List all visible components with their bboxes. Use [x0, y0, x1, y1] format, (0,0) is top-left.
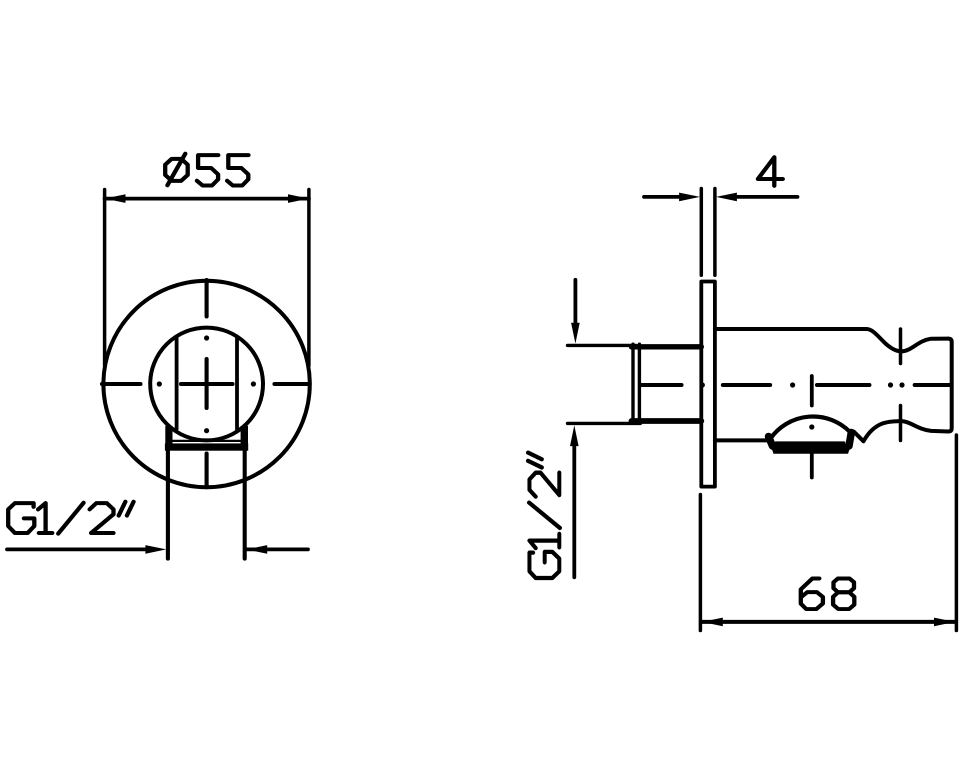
- holder body right end cap: [948, 339, 951, 432]
- cradle under-structure (thick bar): [769, 433, 852, 454]
- pipe below bracket (G1/2 connection): [168, 451, 245, 559]
- holder body bottom profile right of cradle: [854, 421, 948, 441]
- holder body top profile: [715, 329, 948, 351]
- dimension 4 lines with arrows: [644, 193, 798, 202]
- dimension text G1/2" front: [8, 502, 133, 534]
- dimension 68: extension lines: [700, 435, 956, 631]
- outer circle (wall flange ø55): [103, 281, 309, 487]
- dimension text 4: [758, 157, 783, 186]
- cradle vertical centerline: [809, 376, 814, 478]
- neck tick marks: [899, 329, 903, 441]
- dimension G1/2" front: leader lines with arrows: [7, 545, 308, 554]
- dimension 68: line with arrows: [702, 618, 955, 627]
- cradle dome arc: [771, 417, 850, 439]
- vertical centerline front view: [204, 280, 209, 487]
- horizontal centerline front view: [102, 381, 310, 386]
- dimension text 68: [801, 578, 855, 609]
- dimension G1/2" side: arrows: [570, 280, 580, 578]
- hex nut G1/2: [632, 344, 702, 423]
- dimension ø55 extension lines: [105, 190, 309, 366]
- horizontal centerline side view: [642, 382, 951, 387]
- wall plate: [701, 282, 715, 487]
- dimension G1/2" side: extension lines: [568, 345, 641, 423]
- holder body bottom edge near plate: [715, 438, 770, 442]
- dimension text G1/2" rotated: [528, 453, 560, 578]
- dimension text ø55: [165, 154, 248, 186]
- dimension ø55 line with arrows: [105, 194, 309, 203]
- pipe silhouette lines through inner circle: [177, 339, 237, 430]
- plate thickness extension lines (dim 4): [701, 189, 715, 276]
- inner circle (holder boss): [150, 328, 263, 441]
- clamp bracket under boss: [165, 426, 248, 451]
